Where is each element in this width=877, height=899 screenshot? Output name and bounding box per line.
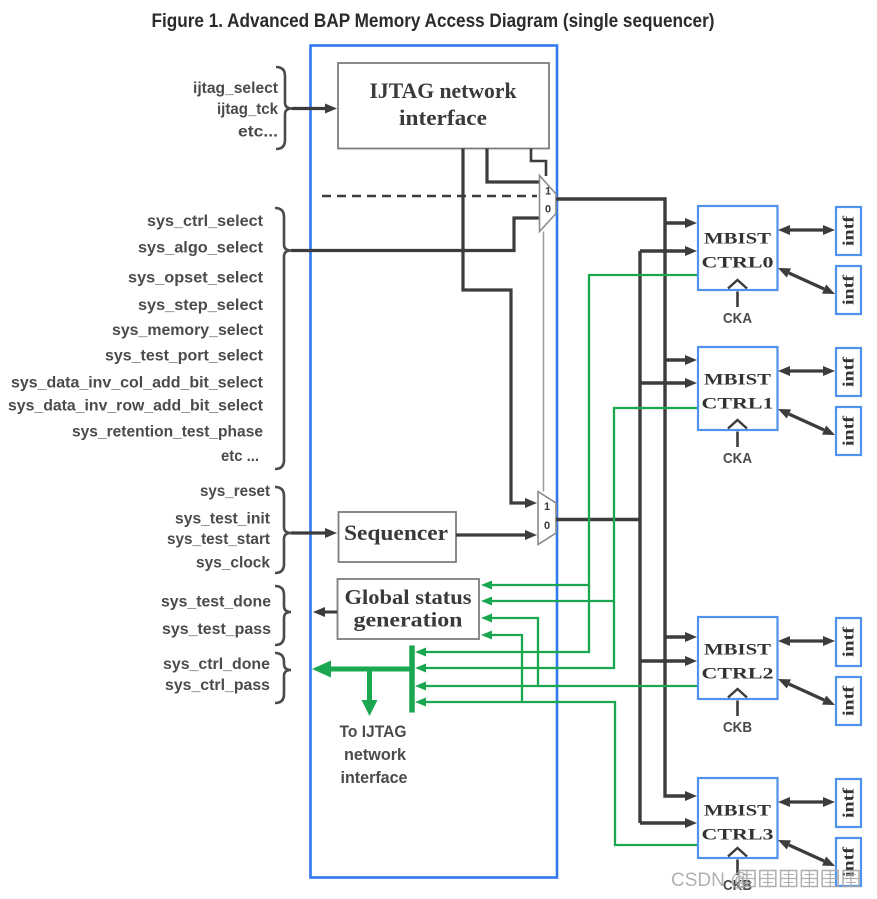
wire M2 bus branch to MBIST CTRL0 in2	[640, 249, 686, 252]
svg-text:sys_test_start: sys_test_start	[167, 531, 271, 548]
wire MBIST CTRL0 status net (green)	[426, 275, 698, 652]
wire bidirectional bus MBIST CTRL1 to intf1	[790, 369, 823, 372]
svg-text:MBIST: MBIST	[704, 231, 772, 248]
wire bidirectional bus MBIST CTRL1 to intf2 (diagonal)	[789, 414, 824, 430]
svg-text:Global status: Global status	[345, 585, 472, 609]
svg-text:CKB: CKB	[723, 719, 752, 736]
svg-text:intf: intf	[841, 626, 858, 657]
svg-text:etc ...: etc ...	[221, 448, 259, 465]
wire CTRL2 status branch to Global status	[492, 618, 538, 686]
wire branch down to IJTAG network (green)	[367, 667, 372, 704]
mbist controller U4 MBIST CTRL0	[698, 206, 778, 290]
mbist controller U7 MBIST CTRL3	[698, 778, 778, 858]
watermark CSDN	[671, 870, 859, 891]
svg-text:MBIST: MBIST	[704, 803, 772, 820]
bracket ijtag group	[276, 67, 292, 149]
wire IJTAG box to mux M2 input 1 (long vertical)	[463, 149, 526, 504]
box U3 Global status generation	[338, 579, 480, 639]
bracket sys select group	[275, 208, 291, 469]
interface box intf1 of MBIST CTRL2	[836, 618, 861, 666]
wire clock stem MBIST CTRL0	[736, 292, 739, 308]
svg-text:interface: interface	[341, 768, 408, 787]
svg-text:sys_test_init: sys_test_init	[175, 511, 271, 528]
svg-text:intf: intf	[841, 274, 858, 305]
svg-text:sys_clock: sys_clock	[196, 555, 270, 572]
svg-text:etc...: etc...	[238, 124, 278, 141]
svg-text:ijtag_select: ijtag_select	[193, 80, 279, 97]
clock chevron pin MBIST CTRL0	[728, 280, 747, 289]
svg-text:sys_ctrl_pass: sys_ctrl_pass	[165, 677, 270, 694]
mux M1 (2:1, ijtag/system select)	[540, 176, 557, 232]
svg-text:generation: generation	[354, 608, 463, 632]
svg-text:Sequencer: Sequencer	[344, 520, 448, 545]
svg-text:IJTAG network: IJTAG network	[370, 78, 518, 103]
svg-text:network: network	[344, 745, 407, 764]
svg-text:sys_step_select: sys_step_select	[138, 297, 264, 314]
svg-text:intf: intf	[841, 787, 858, 818]
interface box intf2 of MBIST CTRL3	[836, 838, 861, 886]
wire clock stem MBIST CTRL1	[736, 432, 739, 448]
svg-text:MBIST: MBIST	[704, 642, 772, 659]
wire clock stem MBIST CTRL2	[736, 701, 739, 717]
bracket sys_test group	[275, 586, 291, 645]
wire sys select bundle to mux M1 input 0	[291, 218, 539, 251]
bracket sys_reset group	[275, 487, 291, 573]
mbist controller U5 MBIST CTRL1	[698, 347, 778, 430]
wire ijtag bundle to IJTAG box	[292, 107, 326, 110]
interface box intf2 of MBIST CTRL2	[836, 677, 861, 725]
wire thick sys_ctrl output arrow	[330, 667, 412, 672]
interface box intf1 of MBIST CTRL3	[836, 779, 861, 827]
svg-text:CTRL3: CTRL3	[702, 827, 774, 844]
svg-text:CTRL2: CTRL2	[702, 666, 774, 683]
wire mux M2 output bus (vertical x=640)	[556, 251, 640, 823]
wire bidirectional bus MBIST CTRL2 to intf2 (diagonal)	[789, 684, 824, 700]
svg-text:1: 1	[545, 186, 551, 198]
box U2 Sequencer	[339, 512, 457, 562]
wire sys_reset bundle to Sequencer	[291, 531, 326, 534]
svg-text:intf: intf	[841, 215, 858, 246]
svg-text:ijtag_tck: ijtag_tck	[217, 101, 278, 118]
wire bidirectional bus MBIST CTRL3 to intf2 (diagonal)	[789, 845, 824, 861]
wire mux M1 output bus (vertical x=665)	[556, 199, 686, 796]
clock chevron pin MBIST CTRL1	[728, 420, 747, 429]
clock chevron pin MBIST CTRL3	[728, 848, 747, 857]
wire CTRL3 status branch to Global status	[492, 635, 522, 702]
svg-text:intf: intf	[841, 356, 858, 387]
interface box intf2 of MBIST CTRL1	[836, 407, 861, 455]
svg-text:sys_test_pass: sys_test_pass	[162, 621, 271, 638]
svg-text:0: 0	[544, 520, 550, 532]
wire M1 bus branch to MBIST CTRL0 in1	[665, 221, 686, 224]
interface box intf2 of MBIST CTRL0	[836, 266, 861, 314]
svg-text:Figure 1. Advanced BAP Memory: Figure 1. Advanced BAP Memory Access Dia…	[152, 11, 715, 32]
mbist controller U6 MBIST CTRL2	[698, 617, 778, 699]
svg-text:MBIST: MBIST	[704, 372, 772, 389]
svg-text:sys_data_inv_col_add_bit_selec: sys_data_inv_col_add_bit_select	[11, 375, 264, 392]
dashed boundary line ijtag/system domain	[322, 195, 537, 198]
wire IJTAG box to mux M1 select	[531, 149, 546, 177]
box U1 IJTAG network interface	[338, 63, 549, 149]
wire M1 bus branch to MBIST CTRL1 in1	[665, 358, 686, 361]
svg-text:interface: interface	[399, 105, 487, 130]
clock chevron pin MBIST CTRL2	[728, 689, 747, 698]
wire MBIST CTRL2 status net (green)	[426, 685, 698, 687]
wire IJTAG box to mux M1 input 1	[487, 149, 539, 183]
outer BAP block boundary	[311, 46, 558, 878]
wire M2 bus branch to MBIST CTRL2 in2	[640, 659, 686, 662]
svg-text:CKA: CKA	[723, 450, 752, 467]
svg-text:To IJTAG: To IJTAG	[340, 722, 407, 741]
wire bidirectional bus MBIST CTRL0 to intf1	[790, 228, 823, 231]
svg-text:sys_ctrl_done: sys_ctrl_done	[163, 656, 270, 673]
svg-text:1: 1	[544, 501, 550, 513]
svg-text:sys_test_port_select: sys_test_port_select	[105, 348, 264, 365]
svg-text:sys_ctrl_select: sys_ctrl_select	[147, 213, 264, 230]
wire Global status output to sys_test bracket	[325, 611, 337, 614]
wire bidirectional bus MBIST CTRL0 to intf2 (diagonal)	[789, 273, 824, 289]
svg-text:CTRL0: CTRL0	[702, 255, 774, 272]
svg-text:sys_test_done: sys_test_done	[161, 594, 271, 611]
wire MBIST CTRL1 status net (green)	[426, 408, 698, 668]
interface box intf1 of MBIST CTRL0	[836, 207, 861, 255]
wire bidirectional bus MBIST CTRL3 to intf1	[790, 800, 823, 803]
svg-text:CSDN @: CSDN @	[671, 870, 749, 891]
svg-text:0: 0	[545, 204, 551, 216]
wire MBIST CTRL3 status net (green)	[426, 702, 698, 845]
mux M2 (2:1, sequencer select)	[538, 492, 556, 545]
wire M1 bus branch to MBIST CTRL2 in1	[665, 635, 686, 638]
bracket sys_ctrl group	[275, 653, 291, 703]
interface box intf1 of MBIST CTRL1	[836, 348, 861, 396]
svg-text:sys_algo_select: sys_algo_select	[138, 240, 264, 257]
svg-text:sys_memory_select: sys_memory_select	[112, 322, 264, 339]
svg-text:sys_reset: sys_reset	[200, 483, 271, 500]
node status collector bar	[409, 646, 415, 713]
svg-text:intf: intf	[841, 415, 858, 446]
wire CTRL0 status branch to Global status	[492, 584, 589, 586]
wire M2 bus branch to MBIST CTRL1 in2	[640, 381, 686, 384]
wire clock stem MBIST CTRL3	[736, 860, 739, 876]
wire Sequencer output to mux M2 input 0	[456, 533, 526, 536]
svg-text:CTRL1: CTRL1	[702, 396, 774, 413]
svg-text:sys_data_inv_row_add_bit_selec: sys_data_inv_row_add_bit_select	[8, 398, 264, 415]
svg-text:intf: intf	[841, 685, 858, 716]
wire bidirectional bus MBIST CTRL2 to intf1	[790, 639, 823, 642]
wire select chain mux M1 to mux M2	[543, 232, 545, 492]
wire CTRL1 status branch to Global status	[492, 600, 614, 602]
svg-text:CKA: CKA	[723, 310, 752, 327]
svg-text:sys_opset_select: sys_opset_select	[128, 270, 264, 287]
wire M2 bus branch to MBIST CTRL3 in2	[640, 821, 686, 824]
svg-text:sys_retention_test_phase: sys_retention_test_phase	[72, 424, 263, 441]
